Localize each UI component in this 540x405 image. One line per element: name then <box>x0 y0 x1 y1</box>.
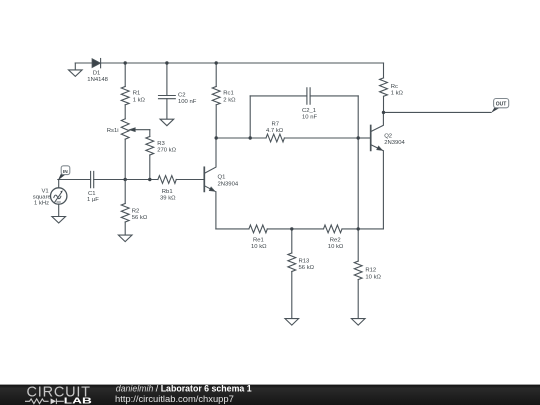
svg-text:10 kΩ: 10 kΩ <box>251 244 267 250</box>
svg-text:56 kΩ: 56 kΩ <box>299 265 315 271</box>
wire R12 top lead <box>357 229 359 261</box>
svg-text:2N3904: 2N3904 <box>384 140 405 146</box>
svg-text:C2: C2 <box>178 93 186 99</box>
footer bar <box>0 384 540 405</box>
wire node row collector Q1 to base Q2 <box>216 137 266 139</box>
wire top rail <box>75 62 383 64</box>
OUT flag <box>491 99 509 113</box>
wire OUT <box>384 111 492 113</box>
ground <box>74 63 76 70</box>
resistor R13 <box>288 253 296 272</box>
svg-text:10 kΩ: 10 kΩ <box>328 244 344 250</box>
junction input node R3 <box>148 178 151 181</box>
junction C2_1 right / Q2 base <box>357 136 360 139</box>
wire Re2 to Q2 emitter <box>342 228 383 230</box>
svg-text:OUT: OUT <box>496 101 507 107</box>
ground <box>160 119 174 126</box>
svg-text:R12: R12 <box>365 268 376 274</box>
svg-text:R1: R1 <box>133 91 141 97</box>
svg-text:http://circuitlab.com/chxupp7: http://circuitlab.com/chxupp7 <box>115 393 234 404</box>
resistor R7 <box>266 134 284 142</box>
resistor Rb1 <box>158 176 176 184</box>
svg-text:R7: R7 <box>272 121 280 127</box>
svg-text:Re1: Re1 <box>253 238 264 244</box>
svg-text:2N3904: 2N3904 <box>218 181 239 187</box>
wire Re1-Re2 <box>267 228 323 230</box>
svg-text:Rc: Rc <box>391 84 398 90</box>
logo squiggle <box>25 399 64 405</box>
junction C2_1 left <box>249 136 252 139</box>
V1 sine glyph <box>54 195 61 199</box>
svg-text:Rs1i: Rs1i <box>107 128 119 134</box>
svg-text:IN: IN <box>63 169 68 175</box>
wire Rb1 to Q1 base <box>176 179 204 181</box>
wire Rc bottom <box>383 96 385 112</box>
capacitor C2_1 <box>306 88 308 104</box>
svg-text:Q1: Q1 <box>218 175 226 181</box>
svg-text:square: square <box>33 194 52 200</box>
transistor Q2 <box>370 126 372 151</box>
svg-text:C2_1: C2_1 <box>302 108 316 114</box>
wire emitter row <box>216 228 249 230</box>
svg-text:R3: R3 <box>157 141 165 147</box>
wire C2_1 top right <box>310 95 358 97</box>
voltage source V1 <box>51 188 67 204</box>
wire R13 bottom <box>291 272 293 319</box>
svg-text:100 nF: 100 nF <box>178 99 197 105</box>
resistor R3 <box>146 137 154 156</box>
svg-text:1N4148: 1N4148 <box>87 77 108 83</box>
svg-text:Rc1: Rc1 <box>223 91 233 97</box>
ground <box>52 217 66 224</box>
diode D1 <box>92 59 100 68</box>
resistor Re1 <box>249 225 267 233</box>
wire Rc1 top lead <box>215 63 217 87</box>
ground <box>351 319 365 326</box>
ground <box>118 235 132 242</box>
svg-text:C1: C1 <box>88 191 96 197</box>
ground <box>285 319 299 326</box>
wire R1-Rs1i <box>124 105 126 119</box>
junction rail-Rc1 <box>215 61 218 64</box>
wire C2 top lead <box>166 63 168 96</box>
svg-text:4.7 kΩ: 4.7 kΩ <box>266 128 284 134</box>
wire right vertical to emitter row <box>357 96 359 229</box>
svg-text:39 kΩ: 39 kΩ <box>160 195 176 201</box>
wire C2_1 top left <box>250 95 307 97</box>
svg-text:1 kΩ: 1 kΩ <box>133 97 146 103</box>
resistor Re2 <box>324 225 343 233</box>
svg-text:56 kΩ: 56 kΩ <box>132 215 148 221</box>
wire Rc top lead <box>383 63 385 78</box>
junction Rc-Q2 collector OUT node <box>382 111 385 114</box>
resistor Rc1 <box>212 87 220 105</box>
wire wiper to R3 <box>149 130 151 137</box>
capacitor C1 <box>90 171 92 187</box>
junction emitter row R12 <box>357 227 360 230</box>
svg-text:Rb1: Rb1 <box>162 189 173 195</box>
svg-text:10 nF: 10 nF <box>302 114 317 120</box>
svg-text:R13: R13 <box>299 258 311 264</box>
wire Rc1 bottom <box>215 105 217 138</box>
transistor Q1 <box>203 167 205 191</box>
IN flag <box>58 166 70 181</box>
junction Q1 collector <box>215 136 218 139</box>
resistor R12 <box>354 261 362 280</box>
potentiometer Rs1i <box>121 119 129 139</box>
svg-text:1 µF: 1 µF <box>87 197 99 203</box>
wire R7 to Q2 base <box>284 137 370 139</box>
resistor R2 <box>118 180 132 242</box>
svg-text:270 kΩ: 270 kΩ <box>157 148 176 154</box>
junction rail-R1 <box>124 61 127 64</box>
wire R1 top lead <box>124 63 126 87</box>
capacitor C2 <box>159 95 176 97</box>
wire R3 bottom <box>149 155 151 180</box>
wire R13 top lead <box>291 229 293 253</box>
wiper arrow Rs1i <box>134 129 150 131</box>
svg-text:1 kΩ: 1 kΩ <box>391 90 404 96</box>
junction input node R2 <box>124 178 127 181</box>
wire C1 to Rb1 <box>94 179 158 181</box>
junction emitter row R13 <box>290 227 293 230</box>
wire middle row left <box>58 179 91 181</box>
svg-text:1 kHz: 1 kHz <box>34 201 49 207</box>
wire C2_1 left vertical <box>249 96 251 138</box>
wire Rs1i lower lead <box>124 139 126 179</box>
svg-text:2 kΩ: 2 kΩ <box>223 97 236 103</box>
wire C2 bottom <box>166 99 168 120</box>
svg-text:Re2: Re2 <box>330 238 341 244</box>
resistor Rc <box>380 78 388 96</box>
svg-text:R2: R2 <box>132 209 140 215</box>
svg-text:Q2: Q2 <box>384 134 392 140</box>
junction rail-C2 <box>165 61 168 64</box>
svg-text:D1: D1 <box>93 71 101 77</box>
svg-text:10 kΩ: 10 kΩ <box>365 274 381 280</box>
resistor R1 <box>121 87 129 105</box>
svg-text:LAB: LAB <box>64 395 92 405</box>
wire Q2 base <box>358 137 371 139</box>
wire R12 bottom <box>357 280 359 319</box>
